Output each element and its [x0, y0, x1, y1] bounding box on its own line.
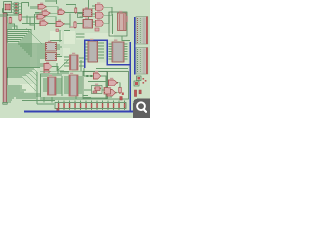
wire bundle rows 44-58 to small ICs	[7, 44, 46, 58]
IC R2 tall right lower	[136, 48, 148, 75]
small part R5 vertical	[75, 7, 77, 13]
wires left of blue box top	[76, 34, 85, 37]
right vertical red parts	[134, 90, 141, 97]
wires bottom area	[16, 94, 110, 104]
highlight box top-mid	[50, 31, 62, 41]
wires bottom-right block	[111, 83, 120, 98]
IC U15 center-right	[109, 42, 128, 62]
gate above IC B1	[44, 70, 50, 73]
resistor R3	[14, 9, 19, 11]
highlight band above center IC	[76, 33, 114, 40]
resistor row pin dots	[58, 103, 125, 108]
D gate U4B	[96, 12, 104, 18]
crystal X1	[94, 87, 100, 91]
highlight box mid-right with diagonal	[56, 57, 72, 72]
small part above magnifier	[120, 97, 122, 101]
IC R1 tall right	[136, 17, 148, 45]
wires around B1 C2	[41, 57, 85, 97]
box U1 outline	[4, 2, 12, 13]
blue vertical A	[134, 17, 136, 75]
gate U2C	[57, 10, 65, 15]
right small parts group B	[134, 81, 139, 86]
right red dots column	[143, 78, 147, 84]
gate U2B	[41, 11, 50, 16]
wire bus corner rows 30-42 turning down	[7, 30, 31, 58]
resistor R2	[14, 6, 19, 8]
gate U3B	[39, 21, 48, 26]
small part P5	[119, 87, 124, 95]
magnifier overlay	[133, 99, 150, 118]
small IC S1	[46, 43, 57, 52]
highlight band mid-center	[78, 63, 128, 71]
CENTER IC U10	[85, 41, 104, 62]
wires crystal area	[83, 90, 105, 98]
vertical bus drop x37	[36, 72, 38, 104]
diagonal wire in highlight box	[57, 58, 71, 72]
resistor row elements	[58, 104, 126, 107]
small part P1	[9, 17, 12, 25]
gate U3A	[36, 15, 45, 20]
D gate U4A	[96, 4, 104, 10]
small part P3	[74, 21, 76, 28]
gate U12 mid right	[94, 73, 101, 79]
wires near IC M2	[77, 0, 89, 24]
gate U14	[107, 90, 117, 97]
wire to R5	[66, 5, 76, 29]
small IC S2	[46, 53, 57, 61]
IC B1 bottom-left	[48, 77, 57, 95]
reference designator labels	[39, 2, 128, 88]
wires top-left block	[0, 3, 29, 17]
small part below strip	[57, 109, 59, 112]
resistor R4	[14, 12, 19, 14]
wires D gates	[92, 6, 112, 24]
IC X2	[104, 88, 111, 95]
wire bundle rows 60-70	[7, 60, 44, 68]
bottom-right block outline	[108, 72, 129, 100]
small part P2	[19, 14, 22, 22]
capacitor C1	[93, 91, 97, 93]
connector bottom cap	[3, 102, 7, 104]
wires gate U12	[84, 68, 106, 99]
gate U11 mid	[44, 64, 52, 70]
IC C2	[69, 75, 78, 96]
wire fan with diagonal tails rows 69-77 converging right-down	[7, 69, 37, 91]
gate U3C	[55, 22, 64, 27]
crystal block outline	[83, 72, 107, 99]
wire bundle rows 86-102 short	[7, 86, 26, 102]
schematic background	[0, 0, 150, 118]
gate U13	[109, 80, 119, 86]
D gate U4C	[96, 20, 104, 26]
box bottom edge wire	[50, 40, 62, 42]
IC M2	[83, 20, 93, 29]
highlight band mid-left	[30, 44, 37, 70]
wires gates outputs	[30, 0, 83, 24]
green outline box around IC T1	[109, 12, 127, 36]
IC M1	[83, 9, 92, 17]
highlight area bottom-right block	[83, 71, 129, 99]
crystal sub-box	[92, 86, 103, 94]
blue vertical B	[129, 42, 131, 111]
diagonal wire crossing corner	[26, 28, 42, 44]
IC C1	[70, 55, 79, 70]
gate U2A	[37, 5, 46, 10]
connector J1 body	[3, 13, 6, 103]
small green box part	[78, 14, 83, 18]
resistor R1	[14, 3, 19, 5]
wire inside box	[113, 14, 131, 41]
connector top square	[3, 9, 7, 13]
relay K1	[5, 4, 11, 10]
blue bottom horizontal	[24, 110, 146, 112]
wires from S1 S2 right	[57, 30, 71, 57]
highlight box top-mid2	[64, 31, 75, 44]
wire vertical left of panel	[80, 60, 82, 72]
resistor row pin ticks	[59, 101, 125, 111]
mesh wires x22-40 y14-30	[7, 14, 40, 30]
highlight box left of C1	[63, 48, 70, 56]
right small parts group A	[137, 76, 142, 81]
wires gate U11	[40, 67, 128, 77]
blue box around center IC	[85, 40, 132, 68]
highlight box bottom-left	[20, 84, 34, 92]
small part P4	[95, 28, 99, 31]
resistor row strip	[55, 103, 126, 109]
connector pin stubs	[7, 14, 8, 102]
small pink dot part above	[56, 29, 59, 32]
IC T1 vertical red	[118, 13, 127, 31]
